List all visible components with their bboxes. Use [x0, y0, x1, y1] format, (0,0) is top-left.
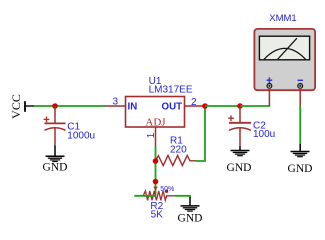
svg-text:IN: IN	[128, 101, 138, 112]
U1 pin 1 stub (ADJ)	[155, 127, 157, 146]
XMM1 plus terminal lead	[268, 88, 270, 106]
resistor R1	[156, 155, 197, 165]
multimeter XMM1 body	[254, 29, 315, 90]
wire node D to XMM1 plus terminal	[240, 105, 270, 107]
svg-text:GND: GND	[178, 212, 203, 224]
wire R2 left stub	[134, 195, 155, 197]
capacitor C1	[44, 106, 66, 146]
XMM1 minus terminal lead	[299, 88, 301, 106]
wire VCC to U1 pin 3	[34, 105, 106, 107]
svg-text:VCC: VCC	[9, 94, 23, 119]
U1 pin 2 stub	[185, 105, 206, 107]
svg-text:5K: 5K	[151, 209, 164, 220]
svg-text:50%: 50%	[160, 186, 174, 193]
svg-text:XMM1: XMM1	[269, 13, 296, 24]
ground (XMM1 branch)	[288, 144, 313, 175]
XMM1 display	[259, 36, 309, 60]
junction node B (ADJ / R1 / R2 wiper)	[153, 158, 159, 164]
XMM1 minus terminal	[298, 84, 303, 89]
svg-text:1: 1	[146, 132, 157, 138]
svg-text:220: 220	[170, 144, 187, 155]
svg-text:GND: GND	[288, 163, 313, 175]
XMM1 plus sign	[267, 77, 273, 83]
capacitor C2	[228, 106, 251, 146]
ground (C1 branch)	[43, 146, 68, 174]
svg-text:GND: GND	[227, 162, 252, 174]
junction node D (C2 / XMM1 +)	[237, 103, 243, 109]
wire OUT node to C2 node	[205, 105, 240, 107]
junction node C (U1 OUT / R1 / wire)	[202, 103, 208, 109]
wire ADJ node to R2 wiper	[155, 161, 157, 196]
XMM1 meter scale arc	[264, 48, 306, 59]
wire ADJ pin to R1 node	[155, 146, 157, 160]
wire XMM1 minus to ground	[299, 106, 301, 144]
wire R2 right to ground	[175, 196, 190, 198]
junction node A (VCC / C1 / U1 IN)	[52, 103, 58, 109]
R2 wiper contact dot	[165, 190, 168, 193]
svg-text:LM317EE: LM317EE	[149, 84, 193, 95]
svg-text:1000u: 1000u	[67, 130, 95, 141]
potentiometer R2 wiper arrow	[153, 187, 157, 191]
XMM1 minus sign	[298, 79, 303, 81]
XMM1 meter needle	[278, 38, 297, 59]
svg-text:OUT: OUT	[162, 101, 183, 112]
regulator U1 body	[126, 97, 185, 128]
potentiometer R2 body	[143, 191, 174, 200]
junction node E (R2 wiper)	[153, 179, 159, 185]
power terminal VCC	[9, 94, 34, 119]
svg-text:2: 2	[191, 97, 197, 108]
wire R1 to OUT node	[196, 106, 205, 161]
ground (R2 branch)	[178, 197, 203, 224]
XMM1 plus terminal	[267, 84, 272, 89]
svg-text:100u: 100u	[253, 129, 275, 140]
U1 pin 3 stub	[106, 105, 126, 107]
svg-text:3: 3	[112, 96, 118, 107]
svg-text:GND: GND	[43, 162, 68, 174]
svg-text:ADJ: ADJ	[145, 116, 166, 128]
ground (C2 branch)	[227, 146, 252, 174]
